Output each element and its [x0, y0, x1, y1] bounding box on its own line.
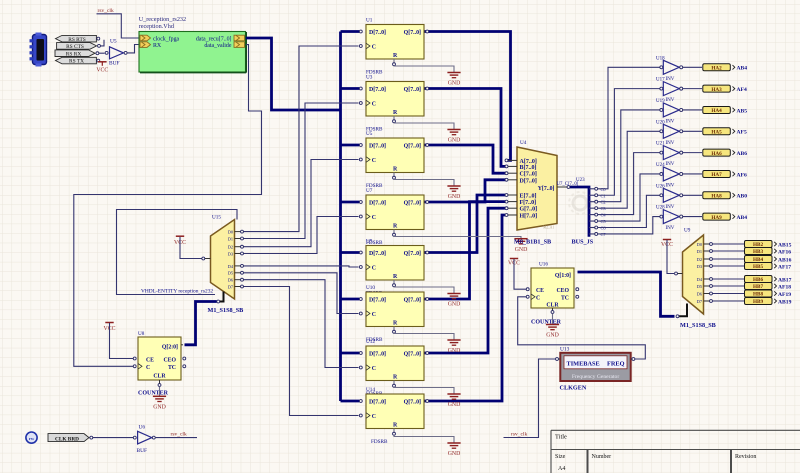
svg-text:AF16: AF16 [778, 249, 791, 255]
inverter U21 [656, 142, 683, 168]
svg-text:U24: U24 [656, 163, 665, 168]
svg-text:U21: U21 [656, 142, 665, 147]
svg-text:M8_B1B1_SB: M8_B1B1_SB [514, 239, 551, 246]
ground (U12) [447, 394, 460, 408]
wire U9 D1 out [713, 250, 745, 252]
svg-text:HA5: HA5 [711, 129, 722, 135]
wire U9 D2 out [713, 258, 745, 260]
bus U9 Q to mux U4 [424, 195, 507, 253]
pill HA2 [703, 64, 735, 72]
ground (U5) [447, 186, 460, 200]
splitter tap C2 [589, 201, 595, 203]
svg-text:Q[7..0]: Q[7..0] [404, 201, 421, 207]
ground (U10) [447, 340, 460, 354]
svg-text:TC: TC [168, 365, 176, 371]
splitter tap C4 [589, 214, 595, 216]
svg-text:C: C [372, 266, 376, 272]
svg-text:D2: D2 [697, 257, 702, 262]
svg-text:CEO: CEO [556, 288, 569, 294]
svg-text:Q[7..0]: Q[7..0] [404, 30, 421, 36]
svg-text:AB15: AB15 [778, 242, 792, 248]
svg-text:H[7..0]: H[7..0] [520, 214, 538, 220]
svg-text:C: C [536, 295, 540, 301]
wire U28 out [683, 216, 702, 218]
svg-text:R: R [393, 375, 398, 381]
svg-text:AB0: AB0 [737, 194, 748, 200]
ground (U16) [546, 314, 559, 339]
bus U10 Q to mux U4 [424, 202, 507, 299]
bus branch to U10 D [341, 298, 360, 301]
svg-text:Q[7..0]: Q[7..0] [404, 298, 421, 304]
svg-text:U3: U3 [366, 75, 373, 81]
svg-text:Q[7..0]: Q[7..0] [404, 400, 421, 406]
wire U9 D7 out [713, 300, 745, 302]
wire C6 to inverter [598, 195, 660, 227]
svg-text:C: C [372, 414, 376, 420]
svg-text:D5: D5 [697, 284, 702, 289]
svg-text:GND: GND [448, 402, 461, 408]
wire RS CTS stub [101, 40, 105, 46]
svg-text:U9: U9 [684, 228, 691, 234]
svg-text:R: R [393, 274, 398, 280]
wire data_valide [74, 45, 262, 367]
wire rsv_clk to clock_fpga [97, 14, 140, 38]
svg-text:AF19: AF19 [778, 292, 791, 298]
svg-text:U13: U13 [560, 347, 570, 353]
svg-text:HA3: HA3 [711, 87, 722, 93]
pill HB9 [745, 298, 777, 306]
bus data_recu to D inputs [246, 38, 341, 110]
bus branch to U12 D [341, 352, 360, 355]
bus vertical D feed [339, 32, 342, 402]
svg-text:GND: GND [448, 138, 461, 144]
wire U5 R to ground [393, 173, 395, 177]
wire U15 D4 to register C [244, 266, 359, 267]
svg-text:U17: U17 [656, 78, 665, 83]
svg-text:U5: U5 [366, 131, 373, 137]
svg-text:D1: D1 [697, 249, 702, 254]
svg-text:GND: GND [153, 405, 166, 411]
svg-text:D[7..0]: D[7..0] [520, 178, 537, 184]
svg-text:VHDL-ENTITY reception_rs232: VHDL-ENTITY reception_rs232 [141, 288, 213, 294]
pill HB3 [745, 248, 777, 256]
svg-text:G[7..0]: G[7..0] [520, 207, 538, 213]
svg-text:TC: TC [561, 295, 569, 301]
svg-text:U8: U8 [138, 331, 145, 337]
svg-text:rw: rw [29, 436, 35, 441]
wire U15 D6 to register C [244, 280, 359, 368]
svg-text:AB16: AB16 [778, 257, 792, 263]
svg-text:GND: GND [448, 451, 461, 457]
wire U19 out [683, 109, 702, 111]
svg-text:U1: U1 [366, 18, 373, 24]
svg-text:R: R [393, 423, 398, 429]
svg-text:CEO: CEO [163, 357, 176, 363]
svg-text:INV: INV [666, 226, 675, 231]
svg-text:GND: GND [448, 348, 461, 354]
pill HA3 [703, 85, 735, 93]
wire RX to buffer [99, 52, 105, 54]
svg-text:Q[2:0]: Q[2:0] [162, 345, 178, 351]
svg-text:U14: U14 [366, 387, 375, 393]
connector CLK input [26, 432, 37, 443]
svg-text:HB9: HB9 [753, 299, 763, 305]
svg-text:D[7..0]: D[7..0] [369, 298, 386, 304]
svg-text:M1_S1S8_SB: M1_S1S8_SB [208, 307, 244, 314]
bus branch to U9 D [341, 251, 360, 254]
svg-text:D[7..0]: D[7..0] [369, 201, 386, 207]
wire U9 D6 out [713, 293, 745, 295]
inverter U18 [656, 56, 683, 82]
svg-text:Frequency Generator: Frequency Generator [572, 374, 620, 380]
svg-text:D7: D7 [228, 284, 234, 289]
wire U12 R to ground [393, 381, 395, 385]
svg-text:BUF: BUF [137, 448, 148, 454]
inverter U26 [656, 184, 683, 210]
svg-text:Q[7..0]: Q[7..0] [404, 144, 421, 150]
svg-text:D[7..0]: D[7..0] [369, 144, 386, 150]
wire U17 out [683, 88, 702, 90]
svg-text:U12: U12 [366, 339, 375, 345]
wire U10 R to ground [393, 327, 395, 331]
bus branch to U7 D [341, 201, 360, 204]
pill HA8 [703, 192, 735, 200]
splitter tap C0 [589, 188, 595, 190]
svg-text:AB5: AB5 [737, 108, 748, 114]
wire U9 D3 out [713, 265, 745, 267]
svg-text:VCC: VCC [96, 68, 108, 74]
svg-text:C: C [372, 45, 376, 51]
U15 select pin [220, 292, 224, 302]
svg-text:INV: INV [666, 183, 675, 188]
svg-text:R: R [393, 167, 398, 173]
register U3 (FDSRB) [359, 75, 428, 117]
counter U16 [526, 262, 579, 314]
port RS RTS [56, 35, 100, 42]
svg-text:R: R [393, 53, 398, 59]
pill HA4 [703, 106, 735, 114]
pill HB2 [745, 241, 777, 249]
svg-text:D[7..0]: D[7..0] [369, 30, 386, 36]
svg-text:INV: INV [666, 141, 675, 146]
svg-text:rsv_clk: rsv_clk [511, 432, 527, 438]
svg-text:D3: D3 [228, 251, 233, 256]
wire U3 R to ground [393, 116, 395, 120]
svg-text:clock_fpga: clock_fpga [153, 36, 180, 43]
svg-text:C: C [146, 365, 150, 371]
svg-text:GND: GND [448, 81, 461, 87]
svg-text:C: C [372, 102, 376, 108]
wire U7 R to ground [393, 230, 395, 234]
svg-text:reception.Vhd: reception.Vhd [139, 23, 175, 30]
wire loop (reception feedback) [117, 210, 238, 295]
svg-text:D1: D1 [228, 236, 233, 241]
mux U4 (M8_B1B1_SB) [505, 140, 570, 230]
svg-text:U6: U6 [139, 425, 146, 431]
svg-text:U28: U28 [656, 206, 665, 211]
wire U9 D5 out [713, 285, 745, 287]
bus U12 Q to mux U4 [424, 208, 507, 353]
svg-text:U19: U19 [656, 99, 665, 104]
svg-text:GND: GND [515, 247, 528, 253]
bus U14 Q to mux U4 [424, 215, 507, 401]
svg-text:AF4: AF4 [737, 87, 747, 93]
wire C0 to inverter [598, 67, 660, 189]
pill HA9 [703, 213, 735, 221]
svg-text:R: R [393, 321, 398, 327]
wire U18 out [683, 66, 702, 68]
wire buffer U5 out to RX port [127, 45, 139, 53]
wire U1 R to ground [393, 59, 395, 63]
svg-text:CE: CE [146, 357, 154, 363]
svg-text:U5: U5 [110, 39, 117, 45]
register U10 (FDSRB) [359, 285, 428, 327]
demux U15 (M1_S1S8_SB) [202, 215, 244, 300]
svg-text:Q[7..0]: Q[7..0] [404, 87, 421, 93]
svg-text:HB7: HB7 [753, 284, 763, 290]
svg-text:U16: U16 [539, 262, 548, 268]
svg-text:HA4: HA4 [711, 108, 722, 114]
power VCC (rs232) [96, 62, 108, 74]
wire U9 D0 out [713, 243, 745, 245]
svg-text:D2: D2 [228, 245, 233, 250]
inverter U24 [656, 163, 683, 189]
wire U15 D1 to register C [244, 103, 359, 239]
svg-text:rsv_clk: rsv_clk [171, 431, 187, 437]
bus U16 Q to U9 select [578, 272, 675, 316]
inverter U20 [656, 120, 683, 145]
wire U13 left pin to rsv_clk [504, 359, 556, 438]
wire U15 D0 to register C [244, 46, 359, 232]
wire U9 R to ground [393, 280, 395, 284]
svg-text:Size: Size [555, 454, 566, 460]
port RS TX [56, 57, 100, 64]
svg-text:U20: U20 [656, 120, 665, 125]
svg-text:A4: A4 [558, 466, 565, 472]
pill HB5 [745, 263, 777, 271]
svg-text:CLK BRD: CLK BRD [55, 436, 79, 442]
svg-text:C: C [372, 158, 376, 164]
wire U24 out [683, 173, 702, 175]
svg-text:FDSRB: FDSRB [371, 439, 388, 445]
port CLK BRD [48, 434, 93, 443]
pill HA6 [703, 149, 735, 157]
svg-text:Q[7..0]: Q[7..0] [404, 352, 421, 358]
svg-text:CLKGEN: CLKGEN [560, 385, 587, 392]
port RS CTS [57, 43, 101, 51]
svg-text:RS RTS: RS RTS [68, 37, 86, 43]
svg-text:U10: U10 [366, 285, 375, 291]
port RX [140, 42, 162, 49]
svg-text:CLR: CLR [153, 374, 166, 380]
bus U1 Q to mux U4 [424, 32, 511, 161]
wire U6 out (rsv_clk) [156, 437, 197, 439]
inverter U17 [656, 78, 683, 104]
svg-text:Title: Title [555, 434, 567, 441]
svg-text:M2_A1: M2_A1 [543, 226, 554, 230]
inverter U28 [656, 206, 683, 232]
svg-text:CE: CE [536, 288, 544, 294]
wire CLK BRD to U6 [93, 437, 133, 439]
counter U8 [133, 331, 186, 387]
buffer U5 [105, 39, 127, 67]
svg-text:data_recu[7..0]: data_recu[7..0] [196, 37, 232, 43]
svg-text:INV: INV [666, 119, 675, 124]
wire C2 to inverter [598, 110, 660, 202]
svg-text:GND: GND [546, 333, 559, 339]
bus branch to U1 D [341, 30, 360, 33]
wire U15 D5 to register C [244, 273, 359, 314]
splitter tap C3 [589, 207, 595, 209]
svg-text:AB4: AB4 [737, 66, 748, 72]
svg-text:U7: U7 [366, 188, 373, 194]
wire C5 to inverter [598, 174, 660, 221]
svg-text:HA8: HA8 [711, 193, 722, 199]
svg-text:D3: D3 [697, 264, 702, 269]
bus U8 Q to U15 select [185, 302, 217, 345]
pill HB4 [745, 256, 777, 264]
wire U21 out [683, 152, 702, 154]
svg-text:R: R [393, 224, 398, 230]
splitter tap C6 [589, 227, 595, 229]
wire C1 to inverter [598, 89, 660, 196]
ground (U8) [153, 387, 166, 411]
register U9 (FDSRB) [359, 239, 428, 281]
ground (U1) [447, 73, 460, 87]
svg-text:GND: GND [448, 302, 461, 308]
svg-text:U9: U9 [366, 239, 373, 245]
svg-text:U23: U23 [576, 178, 585, 183]
svg-text:U26: U26 [656, 184, 665, 189]
svg-text:AF18: AF18 [778, 284, 791, 290]
svg-text:Number: Number [592, 454, 612, 460]
inverter U19 [656, 99, 683, 125]
pill HB7 [745, 283, 777, 291]
wire U20 out [683, 130, 702, 132]
port data_recu[7..0] [196, 35, 245, 42]
ground (U14) [447, 443, 460, 457]
svg-text:TIMEBASE: TIMEBASE [567, 361, 600, 368]
splitter tap C5 [589, 220, 595, 222]
register U5 (FDSRB) [359, 131, 428, 173]
svg-text:F[7..0]: F[7..0] [520, 200, 537, 206]
wire U14 R to ground [393, 429, 395, 433]
svg-text:AB19: AB19 [778, 299, 792, 305]
wire U9 D4 out [713, 278, 745, 280]
svg-text:U4: U4 [520, 140, 527, 146]
svg-text:Q[1:0]: Q[1:0] [555, 273, 571, 279]
ground (U7) [514, 239, 527, 253]
wire C7 to inverter [598, 217, 660, 234]
svg-text:AF17: AF17 [778, 264, 791, 270]
svg-text:HA9: HA9 [711, 215, 722, 221]
svg-text:HB3: HB3 [753, 249, 763, 255]
svg-text:RX: RX [153, 43, 162, 49]
svg-text:BUF: BUF [109, 60, 120, 66]
svg-text:M1_S1S8_SB: M1_S1S8_SB [680, 322, 716, 329]
svg-text:D[7..0]: D[7..0] [369, 352, 386, 358]
svg-text:rsv_clk: rsv_clk [98, 8, 114, 14]
splitter tap C1 [589, 194, 595, 196]
svg-text:Revision: Revision [735, 454, 756, 460]
wire U13 FREQ to U16 C [518, 297, 646, 359]
wire C4 to inverter [598, 153, 660, 215]
demux U9 (M1_S1S8_SB) [675, 228, 713, 315]
svg-text:D6: D6 [697, 291, 703, 296]
svg-text:D0: D0 [697, 242, 702, 247]
svg-text:C: C [372, 366, 376, 372]
pill HB6 [745, 276, 777, 284]
svg-text:D4: D4 [228, 264, 234, 269]
power VCC (U8) [104, 323, 133, 359]
title block [551, 430, 800, 473]
port data_valide [204, 42, 244, 49]
bus U7 Q to mux U4 [424, 180, 507, 202]
bus branch to U5 D [341, 144, 360, 147]
svg-text:D[7..0]: D[7..0] [369, 87, 386, 93]
connector J1 (DB9) [30, 33, 47, 67]
svg-text:HA7: HA7 [711, 172, 722, 178]
svg-text:RS TX: RS TX [69, 59, 84, 65]
svg-text:D[7..0]: D[7..0] [369, 251, 386, 257]
wire U15 D2 to register C [244, 160, 359, 247]
register U1 (FDSRB) [359, 18, 428, 60]
svg-text:AB6: AB6 [737, 151, 748, 157]
svg-text:B[7..0]: B[7..0] [520, 165, 537, 171]
svg-text:data_valide: data_valide [204, 43, 232, 49]
splitter tap C7 [589, 233, 595, 235]
svg-text:HA2: HA2 [711, 66, 722, 72]
power VCC (U16) [508, 259, 526, 290]
pill HB8 [745, 290, 777, 298]
wire U26 out [683, 194, 702, 196]
svg-text:U15: U15 [212, 215, 221, 221]
pill HA5 [703, 128, 735, 136]
svg-text:U18: U18 [656, 56, 665, 61]
bus U3 Q to mux U4 [424, 89, 507, 167]
bus branch to U3 D [341, 87, 360, 90]
U9 select pin [679, 304, 687, 317]
svg-text:U_reception_rs232: U_reception_rs232 [139, 16, 186, 23]
svg-text:HB5: HB5 [753, 264, 763, 270]
svg-text:INV: INV [666, 98, 675, 103]
port RS RX [55, 50, 99, 58]
svg-text:HA6: HA6 [711, 151, 722, 157]
svg-text:AF6: AF6 [737, 172, 747, 178]
port clock_fpga [140, 35, 180, 42]
svg-text:HB8: HB8 [753, 292, 763, 298]
svg-text:D4: D4 [697, 277, 703, 282]
ground (U9) [447, 294, 460, 308]
svg-text:FREQ: FREQ [607, 361, 625, 368]
svg-text:AB4: AB4 [737, 215, 748, 221]
wire U15 D3 to register C [244, 217, 359, 254]
svg-text:D[7..0]: D[7..0] [369, 400, 386, 406]
svg-text:AB17: AB17 [778, 277, 792, 283]
svg-text:INV: INV [666, 77, 675, 82]
buffer U6 [133, 425, 155, 454]
svg-text:C: C [372, 215, 376, 221]
svg-text:BUS_JS: BUS_JS [572, 239, 594, 246]
svg-text:E[7..0]: E[7..0] [520, 194, 537, 200]
frequency generator U13 (TIMEBASE) [556, 347, 635, 382]
svg-text:C[7..0]: C[7..0] [520, 172, 537, 178]
pill HA7 [703, 170, 735, 178]
wire C3 to inverter [598, 131, 660, 208]
svg-text:D7: D7 [697, 299, 703, 304]
svg-text:R: R [393, 110, 398, 116]
bus U5 Q to mux U4 [424, 145, 507, 173]
